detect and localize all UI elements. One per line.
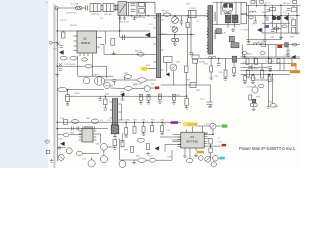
small parts top cut xyxy=(251,0,255,3)
svg-text:R2 0.5: R2 0.5 xyxy=(162,11,169,13)
wire primary return xyxy=(120,36,157,38)
svg-text:Power Man IP-S450T7-0 rev:1.: Power Man IP-S450T7-0 rev:1. xyxy=(239,146,296,151)
inductor L5 xyxy=(249,11,256,13)
transistor Q16b xyxy=(211,162,216,167)
highlight red xyxy=(222,144,226,146)
wire xyxy=(267,45,269,59)
resistor xyxy=(76,151,82,155)
wire xyxy=(104,79,137,81)
transformer T3 standby xyxy=(154,14,164,78)
ground xyxy=(139,100,143,104)
AC input terminal J1 xyxy=(55,7,58,10)
terminal circle xyxy=(49,41,52,44)
inductor L7 xyxy=(253,43,260,45)
transformer T1 main xyxy=(207,6,216,54)
resistor R22 xyxy=(158,94,161,100)
resistor R31 xyxy=(125,128,128,135)
capacitor xyxy=(58,146,61,148)
svg-text:LM393H: LM393H xyxy=(82,125,92,129)
wire xyxy=(254,84,256,87)
transistor Q11 left xyxy=(58,154,64,160)
resistor xyxy=(149,158,156,162)
transistor Q5 xyxy=(144,86,150,92)
capacitor xyxy=(99,98,102,100)
zener ZD1 xyxy=(59,50,63,54)
ground xyxy=(183,156,187,157)
resistor R12 xyxy=(210,66,213,72)
capacitor C11 xyxy=(59,68,62,70)
ground xyxy=(208,104,212,107)
wire xyxy=(213,24,241,26)
wire IC bottom xyxy=(184,151,186,156)
wire xyxy=(261,28,263,33)
svg-text:PS-ON: PS-ON xyxy=(188,123,198,127)
wire xyxy=(159,34,196,36)
wire vertical xyxy=(190,18,192,52)
low rail section xyxy=(57,119,181,137)
capacitor xyxy=(46,150,50,153)
svg-text:K1 RLY: K1 RLY xyxy=(189,8,197,10)
wire xyxy=(91,56,93,76)
wire xyxy=(262,22,290,24)
highlight yellow PSON xyxy=(183,122,197,127)
wire aux xyxy=(120,53,156,55)
capacitor C7b big xyxy=(241,14,247,24)
diode D8 xyxy=(232,56,237,62)
svg-text:R9 10k: R9 10k xyxy=(283,3,291,5)
wire xyxy=(225,58,227,63)
capacitor xyxy=(76,126,78,130)
ground xyxy=(147,100,151,104)
resistor xyxy=(121,140,124,146)
wire xyxy=(82,7,85,9)
ground xyxy=(224,77,228,80)
resistor R44 xyxy=(292,43,297,46)
wire xyxy=(83,152,99,154)
resistor R20 xyxy=(139,94,142,100)
wire DC+ rail xyxy=(127,15,209,17)
wire top bus xyxy=(127,1,155,3)
wire verticals lower right xyxy=(253,57,255,64)
diode xyxy=(166,73,169,76)
svg-text:NTC: NTC xyxy=(163,34,168,36)
svg-text:C2 0.1: C2 0.1 xyxy=(60,20,67,22)
wire xyxy=(119,15,121,37)
wire xyxy=(57,134,63,136)
wire left rail xyxy=(56,8,58,161)
resistor R59 xyxy=(233,68,236,73)
zener ZD2a xyxy=(59,63,62,66)
wire feedback vertical xyxy=(187,18,189,23)
diode xyxy=(252,99,255,102)
highlight orange PG xyxy=(197,151,204,153)
wire xyxy=(246,15,300,17)
svg-text:WT7510: WT7510 xyxy=(186,140,198,144)
wire AC line xyxy=(58,7,76,9)
svg-text:CM TR#01: CM TR#01 xyxy=(66,12,77,14)
wire xyxy=(189,152,191,159)
svg-text:R6 2W: R6 2W xyxy=(135,50,143,52)
capacitor C16 xyxy=(104,107,107,109)
resistor R46 xyxy=(85,64,92,68)
transistor Q13 xyxy=(199,156,204,161)
resistor R5 xyxy=(70,56,77,60)
ground xyxy=(243,81,247,84)
varistor VR1 xyxy=(172,27,178,33)
transistor Q7 xyxy=(66,148,72,154)
wire xyxy=(240,73,290,75)
wire xyxy=(246,44,300,46)
diode xyxy=(61,142,65,146)
capacitor C20 xyxy=(248,65,252,67)
diode X mark xyxy=(56,42,60,45)
choke L2 xyxy=(103,4,114,12)
TL431 cluster bottom right xyxy=(207,74,277,110)
svg-text:U4: U4 xyxy=(190,135,194,139)
IC U4 WT7510 xyxy=(177,126,210,152)
wire top bus secondary xyxy=(213,1,241,3)
resistor xyxy=(63,133,69,137)
capacitor C22 xyxy=(207,101,213,103)
wire xyxy=(262,32,300,34)
wire xyxy=(110,87,124,89)
ground xyxy=(124,134,128,137)
transistor Q14 xyxy=(205,156,211,162)
svg-text:R17 150: R17 150 xyxy=(248,78,257,80)
svg-text:L4/2T(N): L4/2T(N) xyxy=(91,14,100,16)
svg-text:TL431: TL431 xyxy=(247,86,254,88)
resistor R19 xyxy=(274,27,280,30)
capacitor C7 big xyxy=(241,3,247,14)
relay K1 xyxy=(188,10,196,17)
resistor R37 xyxy=(244,76,247,81)
resistor R42 xyxy=(209,139,212,144)
resistor xyxy=(270,104,276,108)
ground xyxy=(113,146,117,150)
capacitor C8 xyxy=(122,35,124,40)
wire xyxy=(67,89,104,91)
wire xyxy=(216,125,222,127)
ground xyxy=(251,81,255,84)
capacitor C2 xyxy=(131,8,136,10)
capacitor C13 xyxy=(253,20,257,22)
ground xyxy=(132,160,136,164)
transformer T2 xyxy=(110,99,122,138)
wire bulk section verticals xyxy=(127,2,129,16)
top-right auxiliary network xyxy=(246,0,300,43)
ground xyxy=(263,38,267,41)
svg-text:SBD1: SBD1 xyxy=(246,53,252,55)
capacitor xyxy=(63,120,67,125)
wire xyxy=(105,31,107,44)
comparator section xyxy=(71,126,94,130)
ground xyxy=(55,75,59,76)
capacitor C24 xyxy=(265,17,269,19)
ground xyxy=(268,68,272,71)
resistor R7 xyxy=(248,16,253,19)
resistor R25 xyxy=(185,99,189,106)
ground xyxy=(279,36,283,39)
capacitor C14 xyxy=(217,62,221,64)
primary snubber cluster xyxy=(217,2,247,31)
svg-text:F1 T5A: F1 T5A xyxy=(71,3,79,6)
IC U1 DM311 xyxy=(73,31,102,56)
resistor xyxy=(72,119,79,123)
thermistor TH1 xyxy=(172,17,179,24)
resistor xyxy=(249,95,252,100)
capacitor C18 xyxy=(189,51,193,53)
svg-text:U2: U2 xyxy=(83,37,87,41)
wire xyxy=(107,146,113,148)
resistor R27 xyxy=(260,52,265,55)
opto U2 xyxy=(95,77,105,85)
ground xyxy=(142,132,146,135)
capacitor C12 xyxy=(266,8,270,10)
ground xyxy=(118,16,121,19)
wire xyxy=(150,87,155,89)
resistor R61 xyxy=(82,58,88,61)
ground xyxy=(158,100,162,104)
secondary rectifier rails xyxy=(200,2,300,83)
resistor xyxy=(138,158,146,162)
ground xyxy=(121,99,125,100)
svg-text:C21 2200: C21 2200 xyxy=(265,61,275,63)
resistor xyxy=(125,87,133,91)
capacitor C6 680uF 200V xyxy=(139,9,145,13)
transistor Q9 xyxy=(100,156,107,163)
box xyxy=(163,56,172,62)
svg-text:L7 +12: L7 +12 xyxy=(258,41,266,43)
diode D3 xyxy=(146,33,150,37)
box xyxy=(192,55,199,58)
node dots xyxy=(57,5,298,147)
wire xyxy=(246,39,281,41)
wire secondary xyxy=(200,57,300,59)
wire -12V rail xyxy=(57,121,181,123)
capacitor C17 xyxy=(287,8,291,10)
svg-text:680uF 200v: 680uF 200v xyxy=(134,17,146,19)
wire xyxy=(114,5,119,7)
resistor R6 xyxy=(137,53,144,57)
ground xyxy=(267,105,271,108)
resistor R34 xyxy=(151,126,154,132)
ground xyxy=(243,55,247,58)
capacitor xyxy=(70,126,72,130)
resistor R18 xyxy=(270,8,276,11)
highlight red 5VSB xyxy=(155,86,159,89)
wire frame top xyxy=(57,30,150,32)
diode D5 xyxy=(216,29,221,34)
ground xyxy=(209,76,213,79)
svg-text:C7 450v: C7 450v xyxy=(241,30,250,32)
wire xyxy=(92,65,107,67)
resistor R15 xyxy=(255,59,258,65)
ground xyxy=(113,137,117,138)
resistor R4 xyxy=(60,56,67,60)
wire xyxy=(240,70,290,72)
capacitor C23 xyxy=(111,39,115,46)
circle pair xyxy=(250,103,254,107)
wire IC left xyxy=(173,134,178,136)
diode D13 xyxy=(258,28,262,32)
diode D6 xyxy=(229,36,234,41)
fuse F1 xyxy=(75,6,82,10)
5VSB secondary xyxy=(65,82,189,110)
ground xyxy=(112,51,116,55)
transistor Q3 xyxy=(83,77,90,84)
wire xyxy=(161,84,211,86)
highlight orange xyxy=(291,63,296,66)
transistor Q18 xyxy=(119,161,126,168)
capacitor C19 xyxy=(286,50,290,52)
resistor R21 xyxy=(147,94,150,100)
resistor R30 xyxy=(224,70,227,77)
highlight yellow aux xyxy=(141,67,147,71)
capacitor CY1 xyxy=(114,4,116,10)
svg-text:SE115N: SE115N xyxy=(105,86,113,88)
transistor Q12 xyxy=(210,123,216,129)
resistor R11 xyxy=(137,78,146,82)
highlight green fan xyxy=(222,124,227,127)
feedback cluster right xyxy=(161,55,211,88)
ground xyxy=(232,75,236,76)
wire xyxy=(218,157,219,159)
svg-text:R3 1M: R3 1M xyxy=(70,25,77,27)
resistor xyxy=(45,140,49,143)
resistor xyxy=(113,140,117,146)
wire 5VSB rail xyxy=(65,95,187,97)
resistor R8 xyxy=(291,8,296,11)
wire xyxy=(240,63,291,65)
wire xyxy=(204,145,222,147)
svg-text:PC817: PC817 xyxy=(92,74,99,76)
resistor R45 xyxy=(282,25,287,28)
ground xyxy=(173,42,177,46)
transistor Q15 xyxy=(213,155,219,161)
transistor Q4 xyxy=(104,82,110,88)
transistor Q17 xyxy=(252,87,258,93)
highlight orange bar xyxy=(290,70,300,73)
svg-text:DM311: DM311 xyxy=(81,41,91,45)
ground xyxy=(185,108,189,109)
wire verticals xyxy=(267,74,269,105)
wire xyxy=(101,5,103,7)
resistor R35 xyxy=(161,126,164,132)
capacitor C10 xyxy=(112,79,116,81)
inductor L6 xyxy=(208,56,216,58)
resistor xyxy=(92,119,99,123)
tiny component labels xyxy=(46,2,296,160)
capacitor CX1 xyxy=(85,5,87,10)
resistor R1 xyxy=(62,32,66,38)
resistor xyxy=(186,159,193,163)
capacitor C9 xyxy=(60,45,63,47)
svg-text:L8/7.0N: L8/7.0N xyxy=(104,14,112,16)
resistor R2 on rail xyxy=(164,13,171,16)
diode D10 xyxy=(272,16,276,20)
resistor R33 xyxy=(142,126,145,132)
resistor xyxy=(66,95,70,102)
wire verticals xyxy=(196,63,198,82)
resistor xyxy=(184,66,188,72)
ground xyxy=(160,132,164,135)
choke L1 xyxy=(90,4,101,12)
wire xyxy=(246,4,300,6)
diode D11 xyxy=(284,16,288,21)
resistor R29 xyxy=(269,59,272,63)
wire subframe xyxy=(78,56,114,77)
svg-text:BD1 600V: BD1 600V xyxy=(119,21,130,23)
transistor Q10 xyxy=(88,160,95,167)
highlight purple xyxy=(171,121,179,124)
resistor R10 xyxy=(292,27,296,33)
ground xyxy=(146,152,150,155)
resistor xyxy=(258,84,264,87)
capacitor xyxy=(92,126,94,130)
wire aux yellow xyxy=(147,68,157,70)
standby primary section xyxy=(57,15,156,40)
svg-text:C11 47u/50: C11 47u/50 xyxy=(64,64,76,66)
zener ZD2 xyxy=(121,93,125,97)
wire xyxy=(240,56,300,58)
ground xyxy=(231,28,235,31)
resistor R36 xyxy=(124,75,132,79)
diode D15 xyxy=(285,43,289,47)
transistor Q8 xyxy=(101,143,108,150)
wire xyxy=(132,87,144,89)
resistor R39 xyxy=(268,76,271,81)
ground xyxy=(132,16,136,19)
resistor R38 xyxy=(252,76,255,81)
ground xyxy=(50,159,54,162)
wire xyxy=(295,64,297,71)
page edge shadow xyxy=(53,4,55,168)
resistor xyxy=(131,146,134,152)
resistor R13 xyxy=(261,43,266,46)
ground xyxy=(286,53,290,56)
resistor oval 5VSB xyxy=(58,88,67,92)
resistor R23 xyxy=(172,94,175,100)
resistor R43 xyxy=(209,148,212,153)
resistor R14 xyxy=(246,59,249,65)
desktop strip left xyxy=(0,0,48,168)
wire xyxy=(119,159,137,161)
svg-text:5VSB: 5VSB xyxy=(74,93,80,95)
IC U3 LM393 xyxy=(79,125,97,142)
svg-text:C6 +: C6 + xyxy=(149,24,154,26)
diode xyxy=(155,146,159,150)
capacitor C18 xyxy=(271,29,274,31)
resistor xyxy=(146,144,149,150)
resistor R17 xyxy=(246,70,249,77)
resistor R26 xyxy=(242,52,247,55)
wire PSON xyxy=(198,125,210,127)
highlight cyan xyxy=(220,157,225,160)
capacitor C3 xyxy=(180,20,183,22)
ground xyxy=(247,40,251,43)
bridge rectifier BD1 xyxy=(118,2,127,16)
svg-text:C31 10/50: C31 10/50 xyxy=(120,120,131,122)
ground xyxy=(66,104,70,106)
wire mid xyxy=(57,65,85,67)
wire second low rail xyxy=(57,128,108,130)
diode D14 xyxy=(292,55,295,58)
page background xyxy=(0,0,300,168)
capacitor C15 xyxy=(268,65,272,67)
transistor Q16 xyxy=(170,64,177,71)
wire xyxy=(100,43,104,45)
resistor R24 xyxy=(104,99,107,105)
